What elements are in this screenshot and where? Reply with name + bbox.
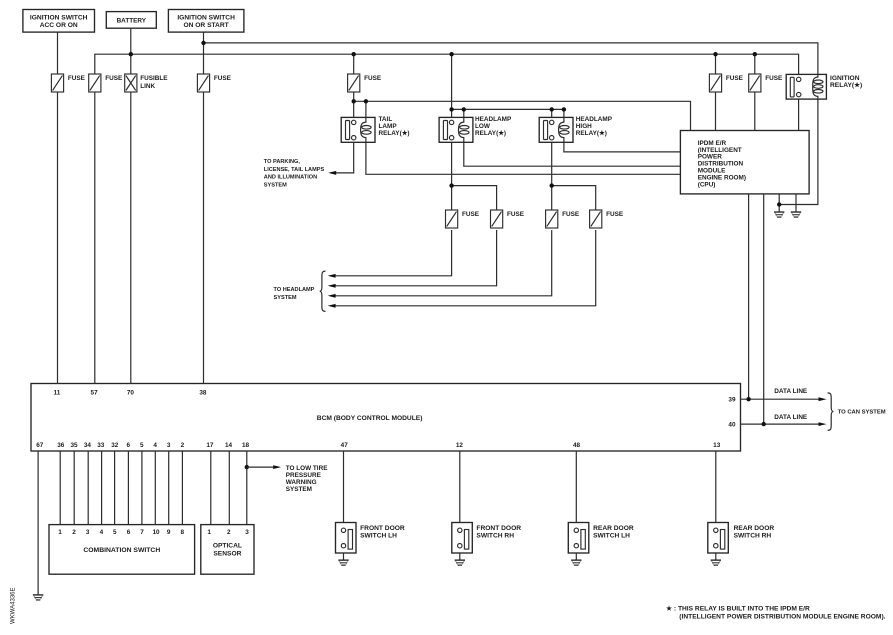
svg-text:3: 3 [167,442,171,449]
ground: rear door switch LH [571,560,581,566]
fuse F2 (battery) [89,74,123,92]
wire: tail relay feed drop [353,54,355,74]
text: to low tire pressure warning system [286,465,329,493]
svg-text:2: 2 [227,529,231,536]
svg-text:★ : THIS RELAY IS BUILT INTO T: ★ : THIS RELAY IS BUILT INTO THE IPDM E/… [666,604,810,612]
svg-text:12: 12 [456,442,464,449]
box: IPDM E/R [680,131,809,194]
wire: front door switch LH ground lead [343,553,345,560]
fuse F1 (ACC) [51,74,85,92]
svg-text:4: 4 [153,442,157,449]
svg-text:LINK: LINK [140,83,155,90]
ground: front door switch RH [455,560,465,566]
fuse F4 (tail relay feed) [348,74,382,92]
wire: right fuse 2 to IPDM [754,92,756,131]
fuse F6 (IPDM feed 2) [749,74,783,92]
arrow: headlamp 2 [328,284,336,288]
wire: high fuse 2 to headlamp arrow 4 [330,230,596,306]
wire: BCM pin 5 to combination switch 7 [141,451,143,525]
svg-text:DATA LINE: DATA LINE [774,388,808,395]
node: tail rail contact tee [352,99,356,103]
svg-text:FUSE: FUSE [606,211,624,218]
arrow: headlamp 1 [328,274,336,278]
ground: BCM pin 67 ground [33,594,43,600]
svg-text:TAIL: TAIL [379,116,393,123]
arrow: headlamp 3 [328,294,336,298]
svg-text:SYSTEM: SYSTEM [264,182,287,188]
wire: BCM pin 13 to rear door switch RH [715,451,717,523]
svg-text:2: 2 [181,442,185,449]
svg-text:WARNING: WARNING [286,479,317,486]
svg-text:3: 3 [86,529,90,536]
switch: front door switch LH [336,523,405,554]
svg-text:13: 13 [713,442,721,449]
text: to parking license tail lamps [264,159,325,188]
svg-text:RELAY(★): RELAY(★) [475,130,506,137]
wire: rear door switch LH ground lead [575,553,577,560]
node: data 40 junction [762,422,766,426]
wire: headlamp high coil return to IPDM [564,142,681,152]
wire: tail relay coil return to IPDM [366,142,681,174]
relay: tail lamp relay [341,116,409,142]
wire: front door switch RH ground lead [459,553,461,560]
node: IPDM ground junction [777,202,781,206]
wire: headlamp low contact output [451,140,453,210]
svg-text:FUSE: FUSE [214,75,232,82]
svg-text:FUSE: FUSE [507,211,525,218]
svg-text:REAR DOOR: REAR DOOR [593,525,634,532]
svg-text:TO CAN SYSTEM: TO CAN SYSTEM [838,410,886,416]
wire: headlamp high contact drop [551,109,553,120]
svg-text:SWITCH LH: SWITCH LH [593,532,630,539]
wire: tail relay contact output to parking arrow [331,140,354,173]
svg-text:FUSE: FUSE [726,75,744,82]
fuse F3 (ign start) [197,74,231,92]
wire: tail relay rail to IPDM top [354,92,691,131]
node: data 39 junction [746,397,750,401]
svg-text:LAMP: LAMP [379,123,398,130]
svg-text:SYSTEM: SYSTEM [286,486,312,493]
svg-text:IGNITION SWITCH: IGNITION SWITCH [30,14,88,21]
wire: IPDM ground lead 1 [778,194,780,212]
svg-text:57: 57 [91,390,99,397]
wire: battery rail horizontal [95,54,799,77]
svg-text:7: 7 [140,529,144,536]
svg-text:SYSTEM: SYSTEM [274,295,297,301]
wire: ignition start drop [203,32,205,74]
wire: BCM pin 32 to combination switch 5 [114,451,116,525]
arrow: to parking system [328,171,336,175]
svg-text:47: 47 [341,442,349,449]
fuse F10 (headlamp high 2) [590,210,624,228]
wire: BCM pin 3 to combination switch 9 [168,451,170,525]
box: ignition switch ON or START [168,10,244,33]
wire: headlamp low coil return to IPDM [464,142,681,166]
wire: ignition relay contact to IPDM [798,97,800,131]
wire: BCM pin 47 to front door switch LH [343,451,345,523]
svg-text:RELAY(★): RELAY(★) [830,81,862,89]
svg-text:9: 9 [167,529,171,536]
svg-text:COMBINATION SWITCH: COMBINATION SWITCH [83,547,160,554]
box: combination switch [49,525,195,575]
wire: BCM pin 14 to optical sensor 2 [228,451,230,525]
svg-text:5: 5 [113,529,117,536]
svg-text:AND ILLUMINATION: AND ILLUMINATION [264,175,317,181]
svg-text:40: 40 [728,422,736,429]
wire: fuse 38 to BCM pin 38 [203,92,205,384]
wire: tail relay contact drop [353,101,355,120]
wire: ACC fuse to BCM pin 11 [57,92,59,384]
svg-text:SWITCH RH: SWITCH RH [476,532,514,539]
switch: front door switch RH [452,523,521,554]
svg-text:HIGH: HIGH [576,123,592,130]
brace and text: to CAN system [828,393,886,430]
node: battery junction [129,52,133,56]
fuse F7 (headlamp low 1) [446,210,480,228]
svg-text:FUSE: FUSE [562,211,580,218]
wire: IPDM output to data line 40 [763,194,765,424]
svg-text:11: 11 [54,390,61,397]
svg-text:1: 1 [207,529,211,536]
node: high rail coil tee [562,107,566,111]
svg-text:SWITCH RH: SWITCH RH [734,532,772,539]
wire: BCM pin 4 to combination switch 10 [154,451,156,525]
svg-text:3: 3 [245,529,249,536]
wire: rear door switch RH ground lead [715,553,717,560]
svg-text:1: 1 [58,529,62,536]
wire: BCM pin 67 to ground [37,451,39,594]
relay: headlamp low relay [439,116,512,142]
switch: rear door switch RH [708,523,775,554]
svg-text:14: 14 [225,442,233,449]
node: ignition start junction [201,41,205,45]
node: low tire branch junction [245,465,249,469]
svg-text:IGNITION: IGNITION [830,75,860,82]
wire: high fuse 1 to headlamp arrow 3 [330,230,552,296]
svg-text:FUSIBLE: FUSIBLE [140,75,168,82]
wire: BCM pin 35 to combination switch 2 [73,451,75,525]
arrow: headlamp 4 [328,304,336,308]
svg-text:6: 6 [127,442,131,449]
svg-text:FUSE: FUSE [462,211,480,218]
svg-text:17: 17 [206,442,214,449]
svg-text:RELAY(★): RELAY(★) [576,130,607,137]
arrow: data line 40 [819,422,827,426]
arrow: data line 39 [819,397,827,401]
node: right fuse 2 junction [753,52,757,56]
svg-text:SENSOR: SENSOR [213,551,241,558]
wire: headlamp low coil drop [463,109,465,117]
fuse F5 (IPDM feed 1) [709,74,743,92]
svg-text:HEADLAMP: HEADLAMP [475,116,512,123]
svg-text:FRONT DOOR: FRONT DOOR [476,525,521,532]
node: high rail contact tee [550,107,554,111]
ground: IPDM ground 2 [791,211,801,217]
svg-text:TO HEADLAMP: TO HEADLAMP [274,287,315,293]
wire: ignition relay coil return to ground node [779,99,818,204]
relay: ignition relay [786,74,862,99]
svg-text:FUSE: FUSE [105,75,123,82]
box: ignition switch ACC or ON [23,10,95,33]
wire: fusible link to BCM pin 70 [130,92,132,384]
node: tail rail coil tee [364,99,368,103]
svg-text:10: 10 [152,529,160,536]
wire: BCM pin 33 to combination switch 4 [101,451,103,525]
box: optical sensor [201,525,254,575]
svg-text:8: 8 [181,529,185,536]
wire: BCM pin 17 to optical sensor 1 [210,451,212,525]
wire: fuse 57 to BCM pin 57 [94,92,96,384]
svg-text:FUSE: FUSE [765,75,783,82]
svg-text:TO LOW TIRE: TO LOW TIRE [286,465,329,472]
svg-text:5: 5 [140,442,144,449]
node: headlamp feed junction [449,52,453,56]
wire: low fuse 2 to headlamp arrow 2 [330,230,497,286]
wire: ignition switch ACC feed down to fuse [57,32,59,74]
wire: branch to low fuse 2 [452,186,497,210]
svg-text:LICENSE, TAIL LAMPS: LICENSE, TAIL LAMPS [264,167,325,173]
svg-text:HEADLAMP: HEADLAMP [576,116,613,123]
wire: right fuse 1 to IPDM [715,92,717,131]
svg-text:OPTICAL: OPTICAL [213,542,242,549]
svg-text:18: 18 [242,442,250,449]
fuse F8 (headlamp low 2) [491,210,525,228]
wire: IPDM output to data line 39 [748,194,750,399]
svg-text:33: 33 [97,442,105,449]
arrow: to low tire pressure [273,465,281,469]
svg-text:TO PARKING,: TO PARKING, [264,159,301,165]
wire: BCM pin 6 to combination switch 6 [127,451,129,525]
svg-text:32: 32 [111,442,119,449]
wire: BCM pin 34 to combination switch 3 [87,451,89,525]
wire: headlamp feed drop [451,54,453,109]
ground: front door switch LH [338,560,348,566]
svg-text:6: 6 [127,529,131,536]
wire: branch to high fuse 2 [552,186,596,210]
wire: BCM pin 36 to combination switch 1 [59,451,61,525]
box: battery [106,12,156,29]
svg-text:36: 36 [57,442,65,449]
wire: branch to low tire arrow [247,466,274,468]
wire: BCM pin 48 to rear door switch LH [575,451,577,523]
svg-text:FUSE: FUSE [68,75,86,82]
svg-text:(CPU): (CPU) [698,181,716,188]
ground: IPDM ground 1 [774,211,784,217]
wire: BCM pin 12 to front door switch RH [459,451,461,523]
svg-text:2: 2 [72,529,76,536]
svg-text:IGNITION SWITCH: IGNITION SWITCH [177,14,235,21]
wire: data line 40 [741,423,821,425]
svg-text:BCM (BODY CONTROL MODULE): BCM (BODY CONTROL MODULE) [317,415,423,422]
wire: headlamp high coil drop [563,109,565,117]
svg-text:67: 67 [36,442,44,449]
svg-text:34: 34 [84,442,92,449]
wire: headlamp high contact output [551,140,553,210]
svg-text:38: 38 [199,390,207,397]
fuse F9 (headlamp high 1) [546,210,580,228]
node: tail feed junction [352,52,356,56]
text: footnote relay built into IPDM [666,604,886,620]
svg-text:70: 70 [127,390,135,397]
wire: BCM pin 18 to optical sensor 3 [246,451,248,525]
svg-text:39: 39 [728,397,736,404]
svg-text:ON OR START: ON OR START [183,22,228,29]
svg-text:4: 4 [100,529,104,536]
svg-text:ACC OR ON: ACC OR ON [40,22,78,29]
svg-text:RELAY(★): RELAY(★) [379,130,410,137]
svg-text:WKWA4336E: WKWA4336E [11,588,17,624]
svg-text:(INTELLIGENT POWER DISTRIBUTIO: (INTELLIGENT POWER DISTRIBUTION MODULE E… [679,613,885,620]
wire: battery drop to battery rail [130,28,132,74]
wire: headlamp low contact drop [451,109,453,120]
svg-text:SWITCH LH: SWITCH LH [360,532,397,539]
svg-text:REAR DOOR: REAR DOOR [734,525,775,532]
svg-text:LOW: LOW [475,123,491,130]
node: right fuse 1 junction [713,52,717,56]
wire: IPDM ground lead 2 [795,194,797,212]
svg-text:35: 35 [70,442,78,449]
wire: headlamp feed rail [452,108,564,110]
svg-text:BATTERY: BATTERY [117,17,147,24]
switch: rear door switch LH [568,523,634,554]
box: BCM body control module [31,384,741,452]
svg-text:PRESSURE: PRESSURE [286,472,322,479]
svg-text:FRONT DOOR: FRONT DOOR [360,525,405,532]
node: low rail coil tee [462,107,466,111]
svg-text:FUSE: FUSE [364,75,382,82]
wire: ignition start rail to ignition relay coil [204,43,818,75]
wire: right fuse 1 feed [715,54,717,74]
wire: data line 39 [741,398,821,400]
ground: rear door switch RH [711,560,721,566]
svg-text:DATA LINE: DATA LINE [774,414,808,421]
wire: low fuse 1 to headlamp arrow 1 [330,230,452,276]
relay: headlamp high relay [539,116,613,142]
node: low rail contact tee [449,107,453,111]
wire: right fuse 2 feed [754,54,756,74]
node: high contact branch tee [550,183,554,187]
svg-text:48: 48 [573,442,581,449]
wire: BCM pin 2 to combination switch 8 [181,451,183,525]
text: to headlamp system with brace [274,271,326,311]
node: low contact branch tee [449,183,453,187]
fusible link [125,74,169,92]
wire: tail relay coil drop [365,101,367,117]
